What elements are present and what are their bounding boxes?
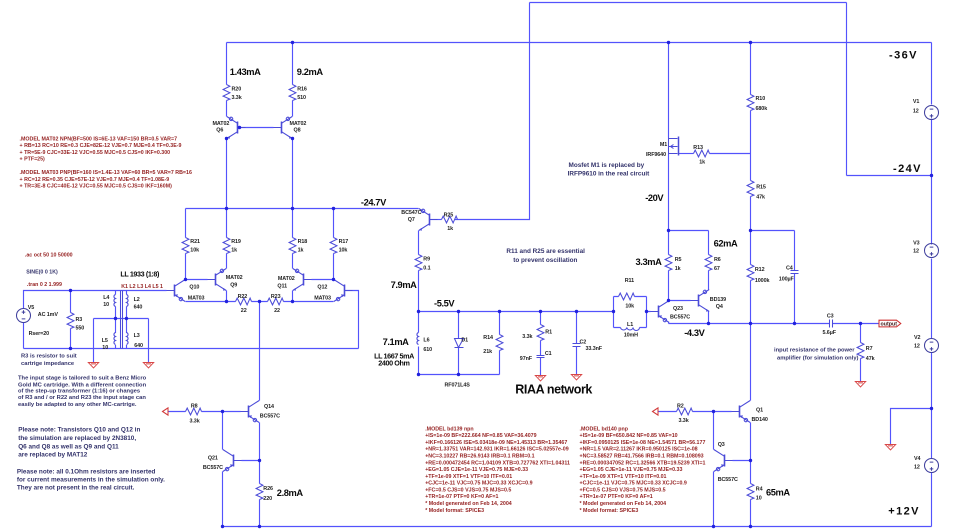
transistor Q21 BC557C (mirrored pnp) <box>223 450 242 472</box>
svg-text:0.1: 0.1 <box>423 266 430 272</box>
svg-text:+IS=1e-09 BF=222.664 NF=0.85 V: +IS=1e-09 BF=222.664 NF=0.85 VAF=36.4079 <box>425 433 536 439</box>
wire: Q6-Q8 base link <box>238 127 274 129</box>
svg-text:AC 1mV: AC 1mV <box>38 312 59 318</box>
wire: M1 drain down to R5 node <box>668 155 670 231</box>
label R14 21k <box>483 335 493 355</box>
resistor R17 10k <box>330 238 337 254</box>
wire: R1-C1 branch leads <box>540 312 542 376</box>
wire: vertical x=529.5 from top rail to R25 <box>455 3 530 220</box>
wire: Q3 left vertical <box>713 412 715 527</box>
transistor Q4 BD139 (npn) <box>691 290 710 312</box>
wire: Q23 collector stub <box>668 323 670 324</box>
svg-text:R9: R9 <box>423 257 430 263</box>
svg-text:10k: 10k <box>625 303 634 309</box>
wire: -36V supply rail <box>227 42 932 44</box>
voltage source V2 12 <box>925 339 939 353</box>
label R8 3.3k <box>190 404 200 425</box>
node: Q9 base / R21 bottom <box>184 278 187 281</box>
label V2 12 <box>914 335 920 349</box>
node: Q6 emitter tip <box>225 137 228 140</box>
svg-text:1k: 1k <box>298 247 304 253</box>
label R10 680k <box>756 96 768 112</box>
label R18 1k <box>298 239 308 254</box>
svg-text:MAT02: MAT02 <box>213 121 230 127</box>
wire: R20 leads <box>226 43 228 117</box>
wire: R5/R6 top link <box>669 230 709 232</box>
node: R10 top junction <box>749 41 752 44</box>
svg-text:Q9: Q9 <box>230 282 237 288</box>
port: R2 input arrow <box>653 408 659 415</box>
node: R15/R12 node <box>749 229 752 232</box>
svg-text:+NC=3.10227 RB=26.9143 IRB=0.1: +NC=3.10227 RB=26.9143 IRB=0.1 RBM=0.1 <box>425 454 534 460</box>
node: R8/Q14 base node <box>221 410 224 413</box>
wire: -5.5V rail <box>419 311 651 313</box>
svg-text:+IS=1e-09 BF=650.842 NF=0.85 V: +IS=1e-09 BF=650.842 NF=0.85 VAF=10 <box>580 433 678 439</box>
svg-text:+ RC=12 RE=0.35 CJE=57E-12 VJE: + RC=12 RE=0.35 CJE=57E-12 VJE=0.7 MJE=0… <box>20 177 170 183</box>
wire: R2 port lead <box>659 411 677 413</box>
directive .MODEL bd140 <box>580 426 706 513</box>
node: R22/R23 midpoint <box>258 300 261 303</box>
capacitor C3 5.6uF <box>830 320 833 328</box>
svg-text:MAT02: MAT02 <box>290 121 307 127</box>
resistor R23 22 <box>268 298 284 305</box>
resistor R10 680k <box>747 95 754 111</box>
wire: Q1 emitter vertical <box>750 423 752 461</box>
svg-text:12: 12 <box>913 249 919 255</box>
label R21 10k <box>190 239 200 254</box>
wire: R18 leads <box>292 209 294 269</box>
diode D1 RF071L4S <box>455 339 464 348</box>
resistor R13 1k <box>694 150 710 157</box>
svg-text:Q8: Q8 <box>294 128 301 134</box>
label Q10 MAT03 <box>188 284 205 301</box>
svg-text:+ TR=5E-9 CJC=33E-12 VJC=0.55: + TR=5E-9 CJC=33E-12 VJC=0.55 MJC=0.5 CJ… <box>20 150 171 156</box>
label Q6 MAT02 <box>213 121 230 134</box>
svg-text:M1: M1 <box>660 142 667 148</box>
node: rail x=226.7 <box>225 207 228 210</box>
svg-text:10k: 10k <box>190 247 199 253</box>
svg-text:R19: R19 <box>231 239 241 245</box>
svg-text:BC557C: BC557C <box>670 315 690 321</box>
label Q8 MAT02 <box>290 121 307 134</box>
svg-text:.MODEL MAT02 NPN(BF=500 IS=6E-: .MODEL MAT02 NPN(BF=500 IS=6E-13 VAF=150… <box>20 136 178 142</box>
transistor Q6 MAT02 (mirrored npn) <box>227 117 246 139</box>
svg-text:R23: R23 <box>271 294 281 300</box>
svg-text:33.3nF: 33.3nF <box>586 346 603 352</box>
wire: R22 leads <box>227 301 260 303</box>
svg-text:Q4: Q4 <box>716 304 723 310</box>
svg-text:.MODEL bd140 pnp: .MODEL bd140 pnp <box>580 426 629 432</box>
svg-text:1k: 1k <box>699 160 705 166</box>
wire: -4.3V output line <box>669 323 879 325</box>
node: -24V rail junction <box>930 174 933 177</box>
svg-text:Please note: Transistors Q10 a: Please note: Transistors Q10 and Q12 in <box>18 427 140 434</box>
svg-text:V5: V5 <box>28 305 34 311</box>
svg-text:C2: C2 <box>580 339 587 345</box>
svg-text:BC557C: BC557C <box>260 414 280 420</box>
svg-text:+ TR=3E-8 CJC=40E-12 VJC=0.55: + TR=3E-8 CJC=40E-12 VJC=0.55 MJC=0.5 CJ… <box>20 184 173 190</box>
svg-text:550: 550 <box>76 326 85 332</box>
svg-text:97nF: 97nF <box>520 356 533 362</box>
label C1 97nF <box>520 351 552 362</box>
svg-text:Q12: Q12 <box>317 284 327 290</box>
transistor Q1 BD140 (pnp) <box>732 401 751 423</box>
ground: R7 <box>855 382 865 387</box>
wire: Q9 base wire <box>186 279 208 281</box>
svg-text:1.43mA: 1.43mA <box>230 67 261 77</box>
capacitor C1 97nF <box>537 356 545 358</box>
node: R16 top junction <box>291 41 294 44</box>
label V5 AC 1mV Rser=20 <box>28 305 59 337</box>
note 0.1 Ohm resistors <box>17 469 165 492</box>
svg-text:2.8mA: 2.8mA <box>277 488 304 498</box>
label Q7 BC547C <box>401 210 421 223</box>
svg-text:47k: 47k <box>866 356 875 362</box>
wire: R11/L1 tank loop frame <box>614 297 647 328</box>
node: -5.5V rail x=540.2 <box>539 310 542 313</box>
svg-text:62mA: 62mA <box>714 239 738 249</box>
svg-text:R15: R15 <box>756 185 766 191</box>
node: Q14 emitter / Q21 base node <box>258 459 261 462</box>
svg-text:the simulation are replaced by: the simulation are replaced by 2N3810, <box>18 435 136 442</box>
svg-text:Q21: Q21 <box>208 456 218 462</box>
node: -5.5V rail x=576.6 <box>575 310 578 313</box>
svg-text:Gold MC cartridge. With a diff: Gold MC cartridge. With a different conn… <box>18 382 147 388</box>
svg-text:+TF=1e-09 XTF=1 VTF=10 ITF=0.0: +TF=1e-09 XTF=1 VTF=10 ITF=0.01 <box>425 474 512 480</box>
svg-text:L4: L4 <box>103 295 109 301</box>
node: V2/V4 ground branch <box>930 407 933 410</box>
svg-text:L6: L6 <box>423 338 429 344</box>
svg-text:R20: R20 <box>232 86 242 92</box>
label V1 12 <box>913 99 919 114</box>
svg-text:+RE=0.000472454 RC=1.04109 XTB: +RE=0.000472454 RC=1.04109 XTB=0.727762 … <box>425 460 570 466</box>
svg-text:+IKF=0.0950125 ISE=1e-08 NE=1.: +IKF=0.0950125 ISE=1e-08 NE=1.54571 BR=5… <box>580 440 706 446</box>
wire: Q14 collector/emitter verticals <box>259 423 261 461</box>
inductor L4 10 <box>114 295 116 307</box>
wire: M1 gate to R13 <box>679 153 694 155</box>
node: -5.5V rail x=458.7 <box>457 310 460 313</box>
label M1 IRF9640 <box>646 142 667 158</box>
svg-text:BD140: BD140 <box>752 417 768 423</box>
svg-text:3.3k: 3.3k <box>679 418 689 424</box>
note mosfet M1 <box>568 162 651 177</box>
svg-text:Mosfet M1 is replaced by: Mosfet M1 is replaced by <box>569 162 645 169</box>
svg-text:640: 640 <box>134 305 143 311</box>
node: R3 bottom <box>69 347 72 350</box>
wire: RIAA bottom wire <box>419 374 500 376</box>
svg-text:67: 67 <box>714 266 720 272</box>
wire: Q12 emitter run <box>293 301 334 303</box>
svg-text:+NC=3.58527 RB=41.7566 IRB=0.1: +NC=3.58527 RB=41.7566 IRB=0.1 RBM=0.108… <box>580 454 704 460</box>
svg-text:* Model format: SPICE3: * Model format: SPICE3 <box>425 508 484 514</box>
ground: C1 <box>535 376 545 381</box>
label Q1 BD140 <box>752 407 768 423</box>
svg-text:1000k: 1000k <box>755 278 770 284</box>
node: bottom rail x=713.2 <box>712 525 715 528</box>
svg-text:Q10: Q10 <box>189 284 199 290</box>
label R20 3.3k <box>232 86 242 101</box>
label C4 100uF <box>779 265 795 282</box>
svg-text:3.3k: 3.3k <box>522 334 532 340</box>
svg-text:R11 and R25 are essential: R11 and R25 are essential <box>506 248 585 255</box>
inductor L1 10mH (tank) <box>621 328 640 331</box>
note input stage <box>18 375 147 408</box>
svg-text:C3: C3 <box>827 313 834 319</box>
svg-text:10mH: 10mH <box>624 333 638 339</box>
label L3 640 <box>134 333 143 349</box>
wire: R8 to Q14 base <box>202 411 241 413</box>
svg-text:22: 22 <box>274 308 280 314</box>
wire: M1 column from -36V rail <box>668 43 670 138</box>
resistor R3 550 <box>67 313 74 329</box>
node: -5.5V rail x=418.5 <box>417 310 420 313</box>
inductor L3 640 <box>127 333 129 345</box>
node: R12 bottom on output line <box>749 322 752 325</box>
svg-text:R12: R12 <box>755 267 765 273</box>
svg-text:BC557C: BC557C <box>718 477 738 483</box>
node: Q6 base <box>238 126 241 129</box>
svg-text:BD139: BD139 <box>710 297 726 303</box>
svg-text:R26: R26 <box>263 486 273 492</box>
wire: Q7 emitter to R9 <box>418 231 420 312</box>
wire: Q10 emitter run <box>186 301 227 303</box>
wire: C2 leads <box>576 312 578 375</box>
label R4 10 <box>756 487 763 502</box>
svg-text:R3 is resistor to suit: R3 is resistor to suit <box>21 354 77 360</box>
wire: Q11 emitter to R23 node <box>292 291 294 302</box>
svg-text:BC557C: BC557C <box>203 465 223 471</box>
svg-text:10: 10 <box>102 345 108 351</box>
svg-text:MAT03: MAT03 <box>314 295 331 301</box>
wire: Q11 base wire <box>312 279 334 281</box>
svg-text:R14: R14 <box>483 335 493 341</box>
svg-text:LL 1933 (1:8): LL 1933 (1:8) <box>120 269 160 278</box>
svg-text:R1: R1 <box>545 330 552 336</box>
svg-text:L1: L1 <box>627 322 633 328</box>
svg-text:of R3 and / or R22 and R23 the: of R3 and / or R22 and R23 the input sta… <box>18 395 146 401</box>
svg-text:RIAA network: RIAA network <box>515 383 592 397</box>
svg-text:-4.3V: -4.3V <box>684 328 705 338</box>
svg-text:R10: R10 <box>756 96 766 102</box>
wire: R14 leads <box>499 312 501 375</box>
svg-text:+EG=1.05 CJE=1e-11 VJE=0.75 MJ: +EG=1.05 CJE=1e-11 VJE=0.75 MJE=0.33 <box>580 467 683 473</box>
wire: R26 leads <box>259 461 261 527</box>
svg-text:R2: R2 <box>677 403 684 409</box>
node: C4 bottom on output line <box>793 322 796 325</box>
svg-text:C1: C1 <box>545 351 552 357</box>
svg-text:IRFP9610 in the real circuit: IRFP9610 in the real circuit <box>568 170 651 177</box>
svg-text:V4: V4 <box>914 456 920 462</box>
wire: R6 leads <box>708 231 710 290</box>
svg-text:* Model format: SPICE3: * Model format: SPICE3 <box>580 508 639 514</box>
voltage source V5 AC 1mV <box>17 309 31 323</box>
svg-text:cartrige impedance: cartrige impedance <box>21 361 75 367</box>
transistor Q23 BC557C (pnp) <box>651 301 670 323</box>
node: Q4 emitter on output line <box>707 322 710 325</box>
label Q11 MAT02 <box>277 276 294 289</box>
svg-text:10k: 10k <box>339 247 348 253</box>
wire: V1 leads <box>931 43 933 176</box>
port: R8 input arrow <box>163 408 169 415</box>
node: R2/Q1 base node <box>712 410 715 413</box>
svg-text:The input stage is tailored to: The input stage is tailored to suit a Be… <box>18 375 147 381</box>
svg-text:+FC=0.5 CJS=0 VJS=0.75 MJS=0.5: +FC=0.5 CJS=0 VJS=0.75 MJS=0.5 <box>580 487 666 493</box>
inductor L5 10 <box>114 333 116 345</box>
resistor R5 1k <box>665 255 672 271</box>
wire: R10 leads <box>750 43 752 154</box>
svg-text:5.6µF: 5.6µF <box>823 330 837 336</box>
svg-text:input resistance of the power: input resistance of the power <box>774 348 855 354</box>
wire: Q9 emitter to R22 node <box>226 291 228 302</box>
node: M1 column on -36V rail <box>667 41 670 44</box>
svg-text:MAT02: MAT02 <box>278 276 295 282</box>
transistor Q3 BC557C (mirrored pnp) <box>714 450 733 472</box>
svg-text:+CJC=1e-11 VJC=0.75 MJC=0.33 X: +CJC=1e-11 VJC=0.75 MJC=0.33 XCJC=0.9 <box>580 481 687 487</box>
svg-text:7.9mA: 7.9mA <box>391 280 418 290</box>
voltage source V3 12 <box>925 244 939 258</box>
wire: -24.7V rail <box>186 208 419 210</box>
resistor R15 47k <box>747 181 754 197</box>
svg-text:2400 Ohm: 2400 Ohm <box>378 359 409 368</box>
label R5 1k <box>675 257 682 272</box>
wire: R15 leads <box>750 154 752 231</box>
svg-text:.MODEL bd139 npn: .MODEL bd139 npn <box>425 426 473 432</box>
svg-text:+ RB=13 RC=10 RE=0.3 CJE=82E-1: + RB=13 RC=10 RE=0.3 CJE=82E-12 VJE=0.7 … <box>20 143 182 149</box>
label Q3 BC557C <box>718 442 738 483</box>
wire: Q8 emitter down to -24.7V rail <box>292 139 294 209</box>
svg-text:3.3mA: 3.3mA <box>636 257 663 267</box>
resistor R18 1k <box>289 238 296 254</box>
svg-text:D1: D1 <box>461 337 468 343</box>
label L4 10 <box>103 295 109 308</box>
svg-text:IRF9640: IRF9640 <box>646 152 666 158</box>
resistor R8 3.3k <box>186 408 202 415</box>
label R13 1k <box>693 145 705 166</box>
ground: +12V branch <box>885 445 895 450</box>
voltage source V4 12 <box>925 459 939 473</box>
svg-text:R16: R16 <box>297 86 307 92</box>
svg-text:V2: V2 <box>914 335 920 341</box>
label D1 RF071L4S <box>445 337 471 388</box>
wire: R5 leads <box>668 231 670 301</box>
label Q23 BC557C <box>670 306 690 320</box>
transistor Q11 MAT02 (mirrored npn) <box>293 269 312 291</box>
transformer K1 core <box>121 291 123 349</box>
svg-text:R8: R8 <box>191 404 198 410</box>
label L2 640 <box>134 297 143 311</box>
svg-text:Q11: Q11 <box>277 283 287 289</box>
wire: R12 leads <box>750 231 752 324</box>
node: rail x=333.8 <box>332 207 335 210</box>
svg-text:7.1mA: 7.1mA <box>383 337 410 347</box>
node: tank right <box>645 310 648 313</box>
wire: C4 leads <box>794 231 796 324</box>
svg-text:+RE=0.000347052 RC=1.32566 XTB: +RE=0.000347052 RC=1.32566 XTB=19.5239 X… <box>580 460 706 466</box>
label C2 33.3nF <box>580 339 603 352</box>
transistor Q8 MAT02 (npn) <box>274 117 293 139</box>
note R11 R25 <box>506 248 585 264</box>
label R26 220 <box>263 486 273 502</box>
svg-text:BC547C: BC547C <box>401 210 421 216</box>
node: Q11 base / R17 bottom <box>332 278 335 281</box>
svg-text:L5: L5 <box>102 338 108 344</box>
svg-text:of the step-up transformer (1:: of the step-up transformer (1:16) or cha… <box>18 389 140 395</box>
wire: ground stub of +12V branch <box>891 409 932 445</box>
wire: bottom ground rail <box>223 526 932 528</box>
resistor R1 3.3k <box>537 325 544 341</box>
wire: R19 leads <box>226 209 228 269</box>
transistor Q12 MAT03 (mirrored pnp) <box>334 280 353 302</box>
svg-text:1k: 1k <box>447 226 453 232</box>
svg-text:R22: R22 <box>238 294 248 300</box>
wire: R2 to Q1 base <box>693 411 732 413</box>
svg-text:.tran 0 2 1.999: .tran 0 2 1.999 <box>27 282 62 288</box>
svg-text:1k: 1k <box>231 247 237 253</box>
wire: L4 leads <box>115 291 117 319</box>
label R19 1k <box>231 239 241 254</box>
label Q21 BC557C <box>203 456 223 471</box>
resistor R4 10 <box>747 484 754 500</box>
svg-text:+IKF=0.166126 ISE=5.03418e-09: +IKF=0.166126 ISE=5.03418e-09 NE=1.45313… <box>425 440 567 446</box>
label R2 3.3k <box>677 403 689 424</box>
svg-text:-20V: -20V <box>645 193 664 203</box>
label R9 0.1 <box>423 257 430 272</box>
node: Q8 emitter tip <box>291 137 294 140</box>
label Q14 BC557C <box>260 404 280 420</box>
svg-text:610: 610 <box>423 347 432 353</box>
ground: transformer CT right <box>143 363 153 368</box>
wire: L5 leads <box>115 319 117 349</box>
svg-text:R3: R3 <box>76 317 83 323</box>
node: rail x=292.8 <box>291 207 294 210</box>
svg-text:RF071L4S: RF071L4S <box>445 383 471 389</box>
resistor R25 1k <box>442 216 458 223</box>
wire: input bottom wire <box>24 348 359 350</box>
note R3 <box>21 354 77 367</box>
node: L6 bottom <box>417 373 420 376</box>
svg-text:R5: R5 <box>675 257 682 263</box>
svg-text:12: 12 <box>914 464 920 470</box>
wire: R21 leads <box>185 209 187 280</box>
ground: transformer CT left <box>88 363 98 368</box>
svg-text:R4: R4 <box>756 487 763 493</box>
label R22 22 <box>238 294 248 314</box>
svg-text:Q3: Q3 <box>718 442 725 448</box>
svg-text:output: output <box>881 322 898 328</box>
mosfet M1 IRF9640 <box>669 137 679 156</box>
voltage source V1 12 <box>925 106 939 120</box>
wire: R16 leads <box>292 43 294 117</box>
svg-text:10: 10 <box>103 302 109 308</box>
svg-text:Q1: Q1 <box>756 407 763 413</box>
wire: right supply column V3 V2 V4 <box>931 176 933 527</box>
directive .MODEL MAT02 <box>20 136 182 162</box>
node: bottom rail x=259.2 <box>258 525 261 528</box>
svg-text:L3: L3 <box>134 333 140 339</box>
svg-text:12: 12 <box>913 108 919 114</box>
svg-text:-24.7V: -24.7V <box>361 198 387 208</box>
svg-text:-5.5V: -5.5V <box>434 299 455 309</box>
wire: centre-tap right ground branch <box>148 319 150 363</box>
resistor R12 1000k <box>747 265 754 281</box>
svg-text:They are not present in the re: They are not present in the real circuit… <box>17 485 135 492</box>
wire: Q21 base wire <box>242 460 260 462</box>
note transistors replaced <box>18 427 140 459</box>
svg-text:1k: 1k <box>675 266 681 272</box>
node: -5.5V rail x=499.4 <box>498 310 501 313</box>
svg-text:22: 22 <box>241 308 247 314</box>
node: D1 bottom <box>457 373 460 376</box>
